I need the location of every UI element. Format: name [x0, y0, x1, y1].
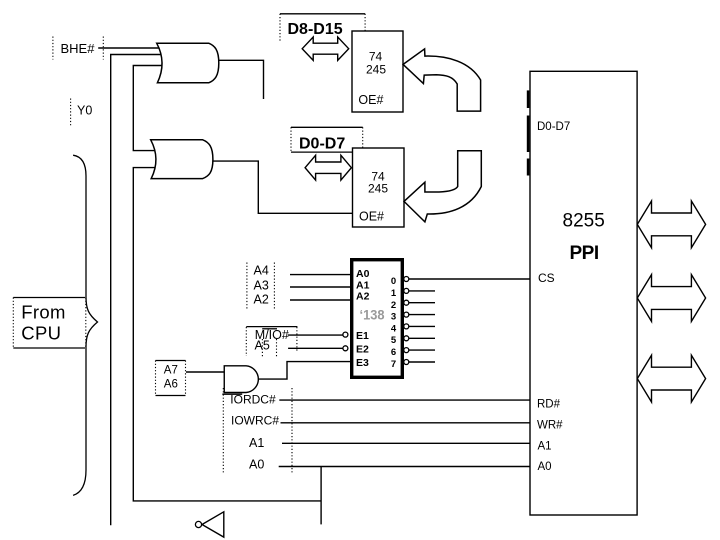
svg-text:E2: E2	[356, 344, 369, 356]
svg-text:OE#: OE#	[358, 93, 383, 107]
svg-text:7: 7	[391, 359, 396, 370]
curved block arrow into U3	[403, 49, 481, 111]
wire OR gate U1 output stub	[219, 60, 264, 99]
buffer U3 74245 box	[352, 31, 403, 112]
svg-text:CPU: CPU	[21, 322, 61, 343]
inverter U6 bubble	[195, 521, 201, 527]
wire A1 to 8255 A1	[282, 442, 530, 444]
svg-text:2: 2	[391, 300, 396, 311]
overline IO of IORDC#	[222, 393, 242, 395]
callout dashes M/IO# A5	[245, 327, 247, 356]
wire '138 output 5	[409, 337, 435, 339]
svg-text:245: 245	[368, 182, 388, 196]
callout dashes A7/A6 box sides	[155, 361, 157, 396]
svg-text:6: 6	[391, 347, 396, 358]
wire '138 output 4	[409, 325, 435, 327]
svg-text:A1: A1	[249, 436, 264, 450]
or-gate U2	[151, 140, 213, 179]
svg-text:WR#: WR#	[537, 420, 563, 432]
svg-text:245: 245	[366, 63, 386, 77]
label box D0-D7 bottom	[291, 151, 363, 153]
svg-text:A0: A0	[249, 458, 264, 472]
svg-text:E1: E1	[356, 330, 369, 342]
svg-text:A3: A3	[254, 279, 269, 293]
svg-text:1: 1	[391, 288, 397, 299]
wire A5 to '138 pin E2	[288, 347, 343, 349]
svg-text:A5: A5	[255, 339, 270, 353]
bidirectional port arrow C of 8255	[637, 355, 705, 402]
svg-text:RD#: RD#	[537, 399, 561, 411]
callout dashes From CPU box sides	[12, 298, 14, 349]
wire BHE# to OR gate U1 input 1	[98, 47, 166, 49]
callout dashes Y0	[70, 99, 72, 128]
svg-text:A7: A7	[164, 365, 178, 377]
wire IOWRC# to 8255 WR#	[281, 422, 531, 424]
wire A7/A6 label to AND gate U5	[186, 371, 224, 373]
label box top D8-D15	[280, 13, 365, 15]
wire A4 to '138 pin A0	[290, 274, 350, 276]
decoder U7 output bubbles	[343, 277, 409, 365]
wire '138 output 1	[409, 290, 435, 292]
svg-text:A0: A0	[356, 268, 370, 280]
buffer U4 74245 box	[353, 148, 405, 227]
wire M/IO# to '138 pin E1	[288, 334, 343, 336]
curly brace From CPU	[73, 155, 97, 495]
svg-text:From: From	[21, 301, 65, 322]
wire AND gate U5 output to '138 pin E3	[259, 362, 350, 380]
callout dashes IORDC#..A0 right	[291, 388, 293, 474]
wire A0 branch to OR gate U2 input 2	[133, 168, 321, 501]
label box D0-D7 top	[291, 126, 363, 128]
svg-text:5: 5	[391, 335, 397, 346]
svg-text:74: 74	[369, 50, 383, 64]
chip U8 8255 PPI box	[530, 71, 637, 515]
svg-text:A6: A6	[164, 379, 178, 391]
wire Y0 bus to OR gate U1 input 2	[111, 55, 166, 526]
svg-text:D0-D7: D0-D7	[537, 121, 570, 133]
bidirectional arrow D0-D7 to U4	[305, 155, 351, 180]
wire '138 output 3	[409, 314, 435, 316]
curved block arrow into U4	[404, 151, 481, 222]
wire '138 output 6	[409, 349, 435, 351]
bidirectional port arrow A of 8255	[637, 201, 705, 248]
svg-text:A0: A0	[538, 461, 552, 473]
svg-text:0: 0	[391, 276, 396, 287]
wire '138 output 7	[409, 361, 435, 363]
svg-text:D0-D7: D0-D7	[299, 136, 345, 153]
bidirectional port arrow B of 8255	[637, 275, 705, 322]
inverter U6	[202, 512, 224, 537]
svg-text:BHE#: BHE#	[61, 41, 96, 56]
wire A0 vertical branch	[320, 467, 322, 525]
svg-text:Y0: Y0	[77, 104, 92, 118]
decoder U7 '138 box	[352, 260, 403, 378]
and-gate U5	[224, 366, 258, 393]
svg-text:A1: A1	[538, 441, 552, 453]
callout dashes BHE#	[52, 37, 54, 60]
wire A2 to '138 pin A2	[290, 299, 350, 301]
bidirectional arrow D8-D15 to U3	[302, 37, 349, 60]
label box From CPU top	[13, 297, 85, 299]
callout dashes A4 A3 A2	[246, 263, 248, 311]
svg-text:IORDC#: IORDC#	[230, 392, 276, 406]
svg-text:A4: A4	[254, 264, 269, 278]
callout dashes D0-D7	[290, 127, 292, 152]
wire A3 to '138 pin A1	[290, 286, 350, 288]
svg-text:D8-D15: D8-D15	[288, 21, 343, 38]
decoder U7 enable bubbles E1 E2	[343, 332, 348, 337]
svg-text:PPI: PPI	[570, 243, 599, 264]
svg-text:CS: CS	[538, 271, 555, 285]
overline IO of M/IO#	[262, 328, 277, 330]
or-gate U1	[157, 43, 219, 83]
wire '138 output 0 to 8255 CS	[409, 278, 530, 280]
svg-text:4: 4	[391, 323, 397, 334]
svg-text:8255: 8255	[563, 210, 605, 231]
callout dashes D8-D15	[279, 14, 281, 41]
label box From CPU bottom	[13, 347, 85, 349]
wire IORDC# to 8255 RD#	[279, 399, 530, 401]
svg-text:OE#: OE#	[359, 210, 384, 224]
wire bus2 to OR gate U1 input 3	[133, 66, 167, 151]
svg-text:A2: A2	[356, 291, 370, 303]
svg-text:E3: E3	[356, 357, 369, 369]
wire A0 to 8255 A0	[279, 466, 530, 468]
svg-text:IOWRC#: IOWRC#	[231, 414, 279, 428]
label box A7/A6 bottom	[156, 395, 186, 397]
svg-text:A2: A2	[254, 293, 269, 307]
wire OR gate U2 output to OE# of U4	[213, 161, 353, 213]
label box A7/A6 top	[156, 360, 186, 362]
callout dashes IORDC#..A0 left	[222, 388, 224, 474]
bus thick bars on 8255 left edge	[527, 90, 530, 175]
wire '138 output 2	[409, 302, 435, 304]
labels U7 output pins 0-7	[391, 276, 397, 370]
svg-text:‘138: ‘138	[360, 306, 385, 322]
svg-text:3: 3	[391, 312, 396, 323]
label box top M/IO#	[246, 326, 297, 328]
